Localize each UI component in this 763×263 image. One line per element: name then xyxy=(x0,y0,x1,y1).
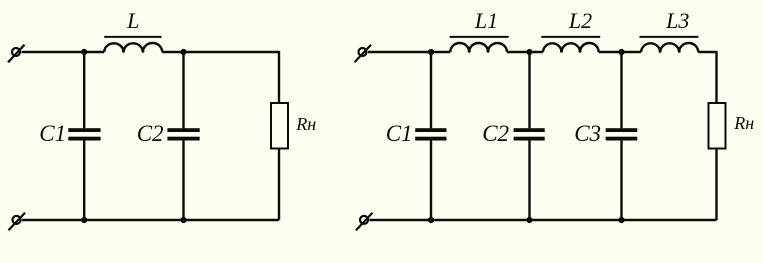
svg-text:C2: C2 xyxy=(482,121,509,146)
svg-text:L2: L2 xyxy=(568,8,592,33)
svg-text:Rн: Rн xyxy=(295,114,316,134)
svg-text:Rн: Rн xyxy=(733,113,754,133)
svg-text:L: L xyxy=(126,8,139,33)
svg-text:L1: L1 xyxy=(474,8,498,33)
svg-text:C1: C1 xyxy=(386,121,413,146)
svg-text:C2: C2 xyxy=(137,121,164,146)
svg-text:C3: C3 xyxy=(574,121,601,146)
svg-text:L3: L3 xyxy=(665,8,689,33)
svg-text:C1: C1 xyxy=(39,121,66,146)
